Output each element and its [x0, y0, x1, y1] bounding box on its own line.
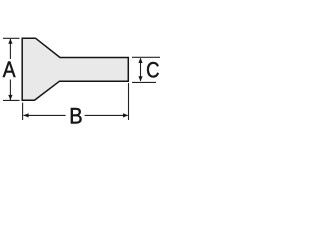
dimension B: left arrowhead — [23, 113, 28, 117]
dimension C: bottom extension tick — [132, 81, 156, 83]
dimension A: bottom extension tick — [3, 99, 20, 101]
svg-text:B: B — [69, 105, 82, 129]
dimension A: up arrowhead — [8, 39, 12, 44]
dimension B: left extension line — [22, 103, 24, 120]
dimension C: top extension tick — [132, 56, 160, 58]
svg-text:A: A — [3, 58, 16, 82]
dimension B: right extension line — [128, 83, 130, 120]
dimension A: upper dimension line — [9, 39, 11, 59]
dimension C: up arrowhead — [138, 58, 142, 63]
dimension A: top extension tick — [3, 37, 20, 39]
dimension B: right dimension line — [85, 114, 128, 116]
dimension B: left dimension line — [24, 114, 66, 116]
svg-text:C: C — [146, 58, 159, 83]
dimension C: dimension line — [140, 58, 142, 81]
part body (rivet profile) — [22, 38, 128, 100]
dimension B: right arrowhead — [123, 113, 128, 117]
dimension C: down arrowhead — [138, 76, 142, 81]
dimension A: lower dimension line — [9, 80, 11, 101]
dimension A: down arrowhead — [8, 95, 12, 100]
